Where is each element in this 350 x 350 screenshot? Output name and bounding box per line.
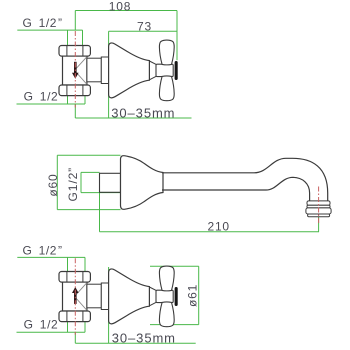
svg-text:1/2: 1/2 [40, 318, 58, 332]
aerator ring 2 [307, 205, 330, 208]
dimension 30-35mm leader (bottom valve) [75, 267, 195, 343]
escutcheon bell (bottom valve) [109, 269, 150, 324]
dimension 108 line [75, 11, 177, 61]
svg-text:108: 108 [109, 0, 131, 13]
handle cap black (bottom valve) [175, 287, 178, 306]
outlet port collar (bottom valve) [101, 283, 108, 310]
handle upper lobe (bottom valve) [159, 266, 174, 291]
svg-text:G: G [24, 318, 33, 332]
valve body (bottom valve) [63, 282, 87, 311]
centerline red spout tip [318, 187, 320, 226]
handle hub [156, 64, 173, 76]
dimension 73 line [109, 31, 177, 118]
svg-text:1/2: 1/2 [39, 244, 57, 258]
valve seat diagonals [75, 57, 87, 84]
handle hub (bottom valve) [156, 290, 173, 302]
handle neck (bottom valve) [149, 287, 156, 306]
hex nut bottom (bottom valve) [59, 311, 90, 322]
svg-text:ø61: ø61 [185, 284, 199, 307]
svg-text:G: G [23, 244, 32, 258]
spout flange bell [121, 156, 164, 210]
flow arrow up (bottom valve) [74, 293, 77, 304]
svg-text:30–35mm: 30–35mm [112, 331, 176, 346]
centerline red top valve [74, 31, 76, 108]
svg-text:G: G [24, 89, 33, 103]
hex nut top (bottom valve) [59, 272, 90, 283]
handle upper lobe [159, 40, 174, 65]
wall pipe nipple [100, 173, 121, 192]
svg-text:30–35mm: 30–35mm [111, 105, 175, 120]
svg-text:1/2: 1/2 [40, 89, 58, 103]
svg-text:210: 210 [207, 219, 229, 233]
dimension 210 line [100, 193, 320, 232]
aerator bottom ring [308, 214, 330, 217]
svg-text:G: G [23, 16, 32, 30]
dimension diameter 61 bracket [150, 266, 199, 324]
valve body [63, 56, 87, 85]
dimension diameter 60 box [57, 155, 120, 209]
leader underline G 1/2 lower (bottom valve) [17, 322, 86, 333]
flow arrow down [74, 62, 77, 73]
handle neck [149, 61, 156, 80]
outlet port tube [87, 58, 101, 82]
svg-text:1/2: 1/2 [39, 16, 57, 30]
valve seat diagonals (bottom valve) [75, 283, 87, 310]
centerline red bottom valve [74, 258, 76, 335]
hex nut top [59, 46, 90, 57]
leader underline G 1/2" (bottom valve) [17, 257, 85, 271]
leader underline G 1/2 bottom [17, 96, 86, 104]
handle lower lobe (bottom valve) [159, 302, 174, 327]
svg-text:G1/2”: G1/2” [66, 167, 80, 202]
aerator ring 1 [307, 201, 330, 205]
spout tube top edge [162, 158, 328, 200]
svg-text:73: 73 [137, 20, 152, 34]
handle lower lobe [159, 76, 174, 101]
dimension 30-35mm leader [75, 104, 191, 118]
leader underline G 1/2" top [17, 30, 82, 45]
svg-text:”: ” [58, 244, 62, 258]
hex nut bottom [59, 85, 90, 96]
outlet port tube (bottom valve) [87, 284, 101, 308]
svg-text:ø60: ø60 [46, 174, 60, 197]
svg-text:”: ” [58, 16, 62, 30]
escutcheon bell [109, 43, 150, 98]
outlet port collar [101, 57, 108, 84]
spout tube bottom edge [162, 177, 310, 200]
aerator bulge [306, 208, 331, 214]
G1/2 bracket [81, 172, 121, 192]
handle cap black [175, 61, 178, 80]
